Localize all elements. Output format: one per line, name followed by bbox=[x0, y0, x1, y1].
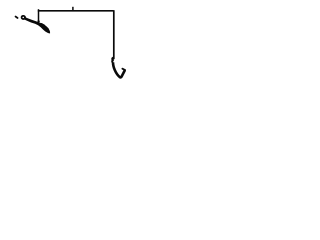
diode D1 top bump dash bbox=[42, 24, 45, 26]
wire stub to D1 bbox=[38, 9, 40, 21]
wire vertical right bbox=[113, 10, 115, 59]
pin tick bbox=[72, 7, 74, 11]
diode D1 bump texture bbox=[25, 18, 27, 20]
hook barb bbox=[122, 69, 125, 70]
diode D1 lead dash bbox=[16, 17, 18, 19]
kink knot bbox=[112, 58, 114, 63]
diode D1 loop head bbox=[22, 16, 26, 19]
junction arrowhead bbox=[37, 21, 40, 24]
diode D1 body stroke bbox=[23, 17, 50, 34]
wire horizontal top bbox=[38, 10, 114, 12]
hook stroke bbox=[113, 62, 125, 77]
